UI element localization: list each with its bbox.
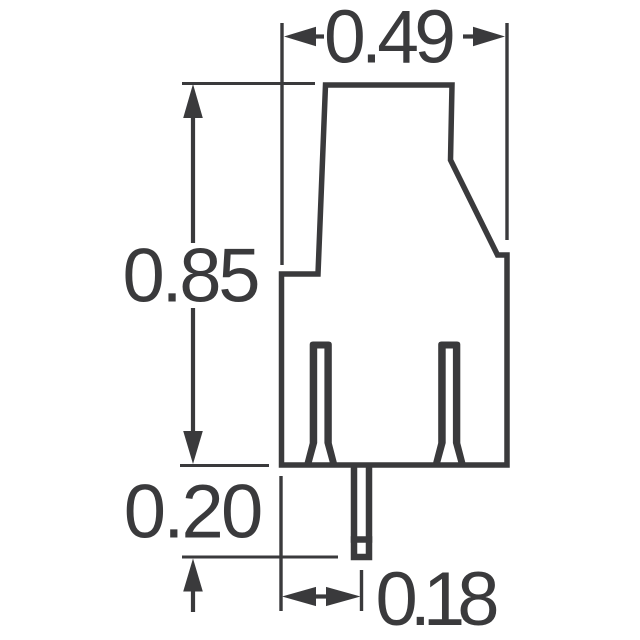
svg-text:0.18: 0.18 [376,557,500,640]
svg-text:0.49: 0.49 [324,0,456,79]
svg-text:0.20: 0.20 [124,470,264,555]
svg-text:0.85: 0.85 [123,234,261,319]
